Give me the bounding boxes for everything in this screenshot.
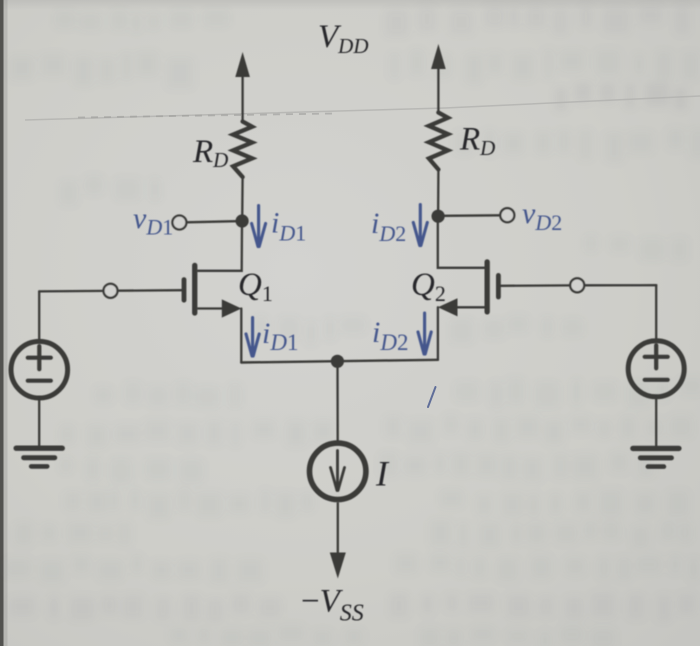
transistor Q2 [438,259,501,316]
wire left source to ground [38,399,40,447]
current arrow iD2 lower [418,313,431,354]
wire drain lead Q1 [197,221,242,271]
wire left source top [38,291,40,341]
node drain Q1 [236,214,249,227]
svg-text:I: I [375,454,390,494]
wire source lead Q1 [240,309,242,363]
voltage source left [11,341,68,398]
terminal gate Q2 [570,278,584,292]
wire source lead Q2 [437,307,439,360]
wire gate lead Q2 [501,284,570,287]
transistor Q1 [182,263,242,318]
terminal vD1 [172,216,186,230]
current arrow iD1 upper [252,206,266,247]
wire resistor to drain node right [437,170,440,217]
VSS arrow [337,502,339,556]
current arrow iD2 upper [413,205,427,246]
wire right source to ground [655,397,657,446]
node tail junction [331,355,344,368]
wire drain lead Q2 [438,216,485,268]
wire gate to source left [39,290,103,293]
terminal gate Q1 [104,284,118,298]
ground left [16,446,62,451]
ground right [633,446,679,451]
wire drain tap right [444,214,500,217]
current arrow iD1 lower [246,318,259,357]
current source I [310,443,366,499]
resistor RD right [429,113,448,170]
node drain Q2 [432,210,445,223]
wire junction to current source [336,361,339,442]
wire resistor to drain node left [241,177,244,221]
wire drain tap left [187,221,237,222]
wire gate lead Q1 [118,289,182,292]
resistor RD left [233,122,252,178]
VDD supply arrow left [235,52,250,77]
terminal vD2 [500,208,514,222]
wire right source top [655,285,657,340]
voltage source right [628,341,684,397]
wire source rail [241,360,438,363]
VDD supply arrow right [431,44,446,69]
wire gate to source right [584,284,656,286]
